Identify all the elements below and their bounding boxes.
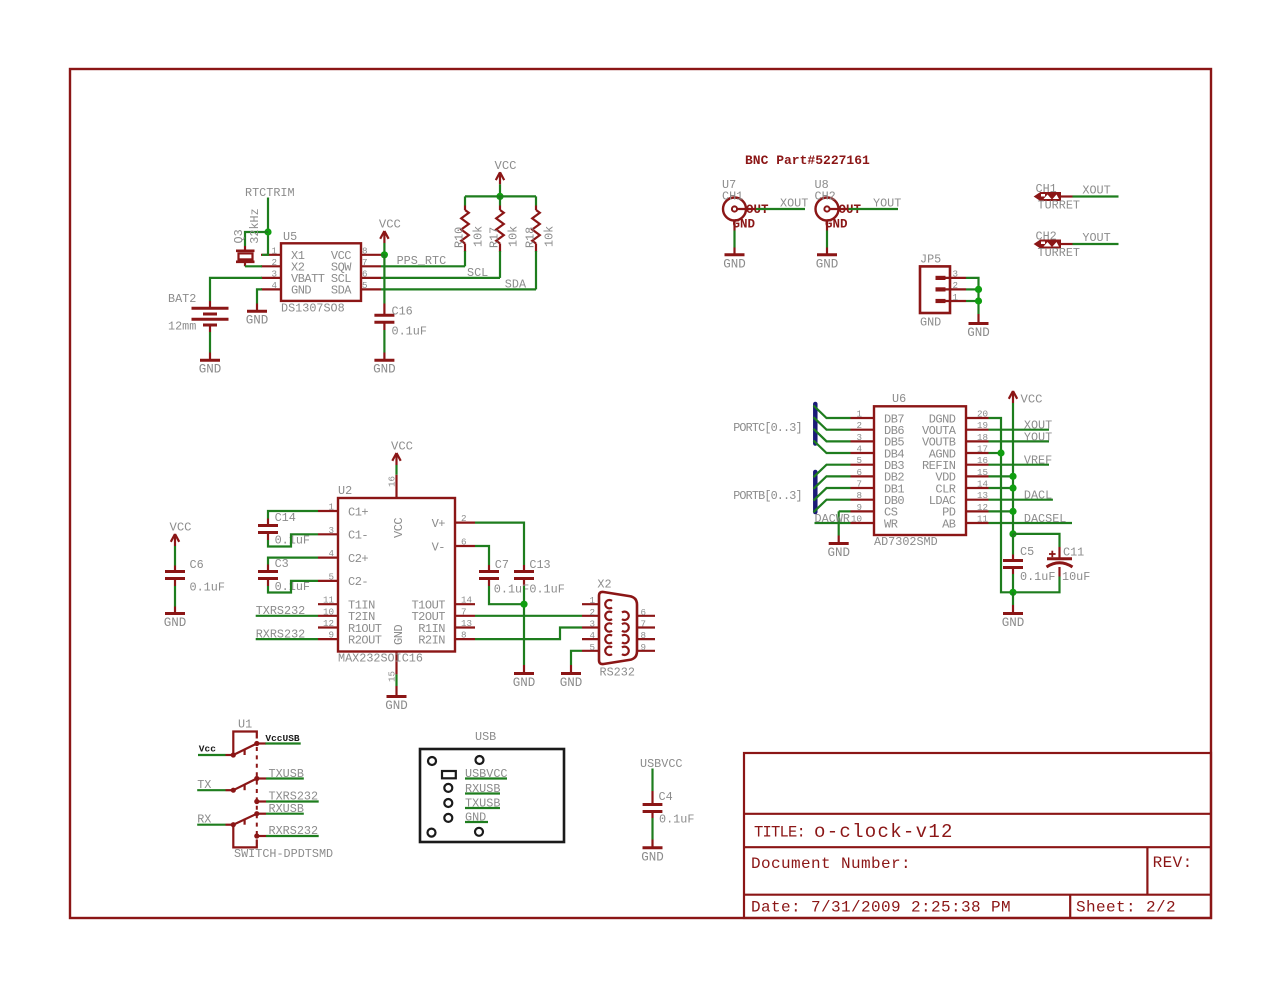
resistor R17 10k <box>488 196 521 252</box>
ground <box>816 248 839 272</box>
wire VCC to C6 <box>174 546 176 566</box>
capacitor C7 0.1uF <box>479 558 529 597</box>
svg-text:C5: C5 <box>1020 545 1034 559</box>
ground <box>1002 605 1025 630</box>
net USBVCC stub in USB box <box>465 767 507 781</box>
svg-text:VCC: VCC <box>1021 393 1043 407</box>
svg-text:SCL: SCL <box>467 266 488 280</box>
net GND stub in USB box <box>465 811 488 825</box>
wire C7 to junction <box>489 586 524 604</box>
svg-text:CH2: CH2 <box>815 190 836 204</box>
wire bottom rail to ground <box>1012 592 1014 605</box>
svg-text:1: 1 <box>328 502 334 513</box>
svg-text:USBVCC: USBVCC <box>640 757 682 771</box>
crystal Q3 32kHz <box>232 208 262 266</box>
ground <box>967 314 990 340</box>
wire junction down to C16 <box>383 255 385 304</box>
svg-text:GND: GND <box>560 676 583 690</box>
svg-text:2: 2 <box>271 257 277 268</box>
svg-text:10uF: 10uF <box>1062 570 1090 584</box>
svg-text:10k: 10k <box>507 226 521 247</box>
net TX wire <box>197 778 225 792</box>
net VccUSB wire <box>265 733 300 744</box>
svg-text:VCC: VCC <box>170 521 192 535</box>
wire junction to C5 <box>1012 534 1014 555</box>
svg-text:VCC: VCC <box>391 440 413 454</box>
svg-text:VCC: VCC <box>379 218 401 232</box>
svg-text:U6: U6 <box>892 392 906 406</box>
supply VCC for C6 <box>170 521 192 547</box>
ground <box>164 607 187 631</box>
net RXRS232 wire at U1 <box>266 824 319 838</box>
svg-text:PORTC[0..3]: PORTC[0..3] <box>733 421 802 435</box>
svg-text:TURRET: TURRET <box>1038 246 1080 260</box>
svg-text:XOUT: XOUT <box>780 197 808 211</box>
net TXRS232 wire at U1 <box>266 790 319 804</box>
junction VCC/C5/C11 top <box>1009 530 1016 537</box>
svg-text:8: 8 <box>641 630 647 641</box>
junction RTCTRIM/X1/crystal <box>264 228 271 235</box>
svg-text:YOUT: YOUT <box>873 197 901 211</box>
svg-text:Sheet: 2/2: Sheet: 2/2 <box>1076 899 1176 917</box>
title block <box>744 753 1211 918</box>
svg-text:GND: GND <box>385 699 408 713</box>
svg-text:5: 5 <box>328 571 334 582</box>
net XOUT wire at U7 <box>756 197 808 211</box>
svg-text:RXUSB: RXUSB <box>269 802 304 816</box>
net YOUT wire at U6 <box>989 430 1053 444</box>
junction rail <box>496 193 503 200</box>
svg-text:C2-: C2- <box>348 575 368 589</box>
svg-text:YOUT: YOUT <box>1024 430 1052 444</box>
wire crystal to X2 pin <box>245 265 262 267</box>
svg-text:0.1uF: 0.1uF <box>1020 570 1055 584</box>
ground <box>723 248 746 272</box>
svg-text:16: 16 <box>387 476 398 487</box>
junction C7/C13 <box>520 601 527 608</box>
svg-text:9: 9 <box>328 630 334 641</box>
svg-text:1: 1 <box>271 245 277 256</box>
svg-text:RXRS232: RXRS232 <box>256 627 306 641</box>
wire U8 GND down <box>826 231 828 248</box>
wire C11 to bottom rail <box>1013 577 1060 593</box>
net SCL wire <box>381 266 500 280</box>
BNC connector U7 CH1 <box>722 178 769 232</box>
svg-text:U2: U2 <box>338 484 352 498</box>
net RX wire <box>197 813 225 827</box>
svg-text:1: 1 <box>953 292 959 303</box>
supply VCC pull-up rail <box>495 159 517 185</box>
net RXRS232 wire at U2 <box>256 627 318 641</box>
resistor R18 10k <box>524 196 557 252</box>
wire R10 to PPS_RTC <box>464 251 466 266</box>
svg-text:0.1uF: 0.1uF <box>659 813 694 827</box>
svg-text:VCC: VCC <box>495 159 517 173</box>
svg-text:20: 20 <box>977 409 988 420</box>
wire U7 GND down <box>733 231 735 248</box>
svg-text:VccUSB: VccUSB <box>265 733 300 744</box>
svg-text:V+: V+ <box>432 517 446 531</box>
svg-text:GND: GND <box>825 218 848 232</box>
svg-text:SWITCH-DPDTSMD: SWITCH-DPDTSMD <box>234 847 333 861</box>
svg-text:C4: C4 <box>659 790 673 804</box>
net DACL wire <box>989 489 1053 503</box>
wire C16 to ground <box>383 330 385 353</box>
svg-text:GND: GND <box>827 546 850 560</box>
capacitor C16 0.1uF <box>374 304 427 339</box>
wire VCC to pin16 <box>395 465 397 475</box>
svg-text:11: 11 <box>977 514 989 525</box>
svg-text:1: 1 <box>856 409 862 420</box>
svg-text:VREF: VREF <box>1024 454 1052 468</box>
wire AGND to DGND line <box>989 452 1002 454</box>
wire C4 to ground <box>651 818 653 840</box>
junction JP5 pin1 <box>975 297 982 304</box>
wire CLR to VCC <box>989 487 1014 489</box>
svg-text:R2OUT: R2OUT <box>348 633 382 647</box>
wire USBVCC to C4 <box>651 769 653 792</box>
svg-text:9: 9 <box>641 642 647 653</box>
svg-text:4: 4 <box>589 630 595 641</box>
svg-text:3: 3 <box>856 432 862 443</box>
resistor R10 10k <box>453 196 486 252</box>
ground <box>513 665 536 690</box>
IC U2 MAX232SOIC16 <box>318 475 475 682</box>
wire R18 to SDA <box>535 251 537 289</box>
svg-text:GND: GND <box>164 616 187 630</box>
svg-text:11: 11 <box>323 595 335 606</box>
wire U5 GND pin to ground <box>257 289 262 303</box>
ground <box>385 686 408 713</box>
net TXUSB wire <box>266 767 304 781</box>
svg-text:2: 2 <box>461 513 467 524</box>
pin header JP5 <box>920 253 966 330</box>
svg-text:12: 12 <box>977 502 988 513</box>
svg-text:U1: U1 <box>238 718 252 732</box>
svg-text:GND: GND <box>392 625 406 645</box>
wire C13 to ground <box>523 586 525 665</box>
svg-text:17: 17 <box>977 444 988 455</box>
turret CH2 <box>1035 230 1080 261</box>
supply VCC for U6 <box>1009 391 1017 403</box>
wire VCC vertical <box>1012 403 1014 534</box>
net VREF wire <box>989 454 1053 468</box>
svg-text:13: 13 <box>977 490 988 501</box>
svg-text:0.1uF: 0.1uF <box>190 581 225 595</box>
svg-text:SDA: SDA <box>505 278 527 292</box>
wire pin8 junction <box>381 254 384 256</box>
svg-text:C13: C13 <box>529 558 550 572</box>
svg-text:GND: GND <box>723 257 746 271</box>
svg-text:WR: WR <box>884 517 898 531</box>
svg-text:C16: C16 <box>392 305 413 319</box>
svg-text:7: 7 <box>362 257 368 268</box>
svg-text:14: 14 <box>461 595 473 606</box>
svg-text:XOUT: XOUT <box>1082 184 1110 198</box>
wire C14 to C1- <box>268 534 318 546</box>
junction VCC/pin8/C16 <box>381 251 388 258</box>
svg-text:15: 15 <box>977 467 988 478</box>
svg-text:RXRS232: RXRS232 <box>269 824 319 838</box>
switch U1 SWITCH-DPDTSMD <box>226 718 334 861</box>
ground <box>827 536 850 561</box>
wire R2IN to X2 pin3 <box>475 628 582 640</box>
wire bus to DB3 <box>814 465 851 478</box>
wire junction to crystal <box>245 232 268 246</box>
net Vcc wire <box>198 744 226 756</box>
svg-text:DACWR: DACWR <box>815 512 850 526</box>
net TXRS232 wire at U2 <box>256 604 318 618</box>
net TXRS232 wire U2 to X2 pin2 <box>475 615 582 617</box>
svg-text:GND: GND <box>967 326 990 340</box>
svg-text:TXUSB: TXUSB <box>465 797 500 811</box>
ground <box>641 840 664 865</box>
svg-text:13: 13 <box>461 618 472 629</box>
svg-text:TITLE:: TITLE: <box>754 824 805 842</box>
junction JP5 pin2 <box>975 286 982 293</box>
supply VCC for U5 <box>379 218 401 244</box>
IC U6 AD7302SMD <box>851 392 989 549</box>
turret CH1 <box>1035 182 1080 213</box>
svg-text:AB: AB <box>942 517 956 531</box>
svg-text:RS232: RS232 <box>600 666 635 680</box>
ground <box>560 665 583 690</box>
bus PORTB[0..3] <box>733 472 815 512</box>
svg-text:REV:: REV: <box>1153 854 1193 872</box>
svg-text:C1+: C1+ <box>348 505 368 519</box>
svg-text:C14: C14 <box>275 511 296 525</box>
junction VDD <box>1009 473 1016 480</box>
net RXUSB stub in USB box <box>465 782 500 796</box>
wire VCC to rail <box>499 184 501 196</box>
wire battery to ground <box>209 332 211 353</box>
svg-text:7: 7 <box>856 479 862 490</box>
capacitor C6 0.1uF <box>165 558 225 595</box>
wire C6 to ground <box>174 586 176 607</box>
svg-text:10k: 10k <box>472 226 486 247</box>
svg-text:GND: GND <box>920 316 941 330</box>
svg-text:GND: GND <box>246 314 269 328</box>
svg-text:DACSEL: DACSEL <box>1024 512 1066 526</box>
svg-text:USBVCC: USBVCC <box>465 767 507 781</box>
svg-text:TXUSB: TXUSB <box>269 767 304 781</box>
svg-text:DS1307SO8: DS1307SO8 <box>281 302 345 316</box>
junction bottom rail <box>1009 589 1016 596</box>
svg-text:7: 7 <box>641 619 647 630</box>
svg-text:0.1uF: 0.1uF <box>529 583 564 597</box>
svg-text:R18: R18 <box>524 227 538 248</box>
svg-text:BNC Part#5227161: BNC Part#5227161 <box>745 153 870 168</box>
wire V+ to C13 <box>475 523 524 565</box>
wire CS to ground <box>839 511 851 535</box>
svg-text:10: 10 <box>323 606 334 617</box>
svg-text:19: 19 <box>977 420 988 431</box>
ground <box>373 353 396 377</box>
svg-text:2: 2 <box>953 280 959 291</box>
svg-text:YOUT: YOUT <box>1082 231 1110 245</box>
wire RTCTRIM vertical <box>262 198 268 255</box>
IC U5 DS1307SO8 <box>261 230 381 316</box>
svg-text:8: 8 <box>362 245 368 256</box>
wire JP5 pin2 <box>966 288 979 290</box>
net DACWR wire <box>815 512 851 526</box>
svg-text:MAX232SOIC16: MAX232SOIC16 <box>338 652 423 666</box>
wire JP5 pin3 <box>966 278 979 314</box>
svg-text:6: 6 <box>362 268 368 279</box>
svg-text:18: 18 <box>977 432 988 443</box>
svg-text:U5: U5 <box>283 230 297 244</box>
svg-text:6: 6 <box>641 607 647 618</box>
wire C2+ to C3 <box>268 558 318 565</box>
wire R17 to SCL <box>499 251 501 278</box>
svg-text:CH1: CH1 <box>722 190 743 204</box>
wire DGND to bottom rail <box>989 418 1014 592</box>
svg-text:Date: 7/31/2009 2:25:38 PM: Date: 7/31/2009 2:25:38 PM <box>751 899 1011 917</box>
wire bus to DB7 <box>814 406 851 419</box>
net XOUT wire at turret CH1 <box>1073 184 1119 198</box>
wire bus to DB6 <box>814 417 851 430</box>
svg-text:GND: GND <box>291 284 311 298</box>
net TXUSB stub in USB box <box>465 797 500 811</box>
svg-text:TXRS232: TXRS232 <box>256 604 306 618</box>
polarized capacitor C11 10uF <box>1047 546 1091 585</box>
svg-text:o-clock-v12: o-clock-v12 <box>814 821 954 843</box>
wire C5 to bottom rail <box>1012 574 1014 592</box>
wire bus to DB1 <box>814 488 851 501</box>
net YOUT wire at U8 <box>849 197 902 211</box>
net SDA wire <box>381 278 536 292</box>
wire VBATT to battery <box>210 278 262 301</box>
svg-text:GND: GND <box>465 811 486 825</box>
svg-text:TURRET: TURRET <box>1038 199 1080 213</box>
svg-text:RXUSB: RXUSB <box>465 782 500 796</box>
svg-text:CH1: CH1 <box>1036 182 1057 196</box>
svg-text:4: 4 <box>271 280 277 291</box>
svg-text:5: 5 <box>362 280 368 291</box>
svg-text:VCC: VCC <box>392 518 406 538</box>
junction PD <box>1009 508 1016 515</box>
svg-text:6: 6 <box>856 467 862 478</box>
net XOUT wire at U6 <box>989 419 1053 433</box>
svg-text:BAT2: BAT2 <box>168 292 196 306</box>
wire pull-up rail <box>465 195 536 197</box>
wire VDD to VCC <box>989 475 1014 477</box>
svg-text:12mm: 12mm <box>168 320 196 334</box>
svg-text:8: 8 <box>856 490 862 501</box>
svg-text:1: 1 <box>589 595 595 606</box>
connector USB header <box>420 730 564 842</box>
supply VCC for U2 <box>391 440 413 466</box>
capacitor C13 0.1uF <box>514 558 565 597</box>
svg-text:3: 3 <box>589 619 595 630</box>
svg-text:10: 10 <box>851 514 862 525</box>
wire bus to DB5 <box>814 429 851 442</box>
wire bus to DB4 <box>814 441 851 454</box>
junction AGND <box>997 449 1004 456</box>
svg-text:X2: X2 <box>597 578 611 592</box>
wire V- to C7 <box>475 546 489 565</box>
svg-text:14: 14 <box>977 479 989 490</box>
svg-text:3: 3 <box>953 269 959 280</box>
wire VCC to pin8 <box>383 243 385 255</box>
svg-text:CH2: CH2 <box>1036 230 1057 244</box>
svg-text:GND: GND <box>373 363 396 377</box>
svg-text:GND: GND <box>733 218 756 232</box>
svg-text:3: 3 <box>271 268 277 279</box>
svg-text:TX: TX <box>197 778 211 792</box>
svg-text:4: 4 <box>328 548 334 559</box>
wire bus to DB0 <box>814 500 851 513</box>
svg-text:12: 12 <box>323 618 334 629</box>
wire junction to C11 top <box>1013 534 1060 547</box>
svg-text:Document Number:: Document Number: <box>751 855 911 873</box>
svg-text:SDA: SDA <box>331 284 352 298</box>
svg-text:2: 2 <box>856 420 862 431</box>
ground <box>199 353 222 377</box>
svg-text:PPS_RTC: PPS_RTC <box>397 254 447 268</box>
svg-text:RX: RX <box>197 813 211 827</box>
svg-text:GND: GND <box>816 257 839 271</box>
svg-text:GND: GND <box>1002 616 1025 630</box>
svg-text:16: 16 <box>977 455 988 466</box>
battery BAT2 12mm <box>168 292 229 334</box>
svg-text:C7: C7 <box>495 558 509 572</box>
svg-text:DACL: DACL <box>1024 489 1052 503</box>
svg-text:AD7302SMD: AD7302SMD <box>874 535 938 549</box>
svg-text:USB: USB <box>475 730 496 744</box>
svg-text:GND: GND <box>513 676 536 690</box>
wire X2 pin5 to ground <box>571 651 582 665</box>
net DACSEL wire <box>989 512 1073 526</box>
net PPS_RTC wire <box>381 254 465 268</box>
svg-text:GND: GND <box>641 850 664 864</box>
wire bus to DB2 <box>814 476 851 489</box>
svg-text:7: 7 <box>461 606 467 617</box>
net RXUSB wire <box>266 802 304 816</box>
svg-text:0.1uF: 0.1uF <box>392 325 427 339</box>
svg-text:Q3: Q3 <box>232 229 246 243</box>
svg-text:4: 4 <box>856 444 862 455</box>
junction CLR <box>1009 484 1016 491</box>
BNC connector U8 CH2 <box>815 178 862 232</box>
svg-text:PORTB[0..3]: PORTB[0..3] <box>733 489 802 503</box>
capacitor C14 0.1uF <box>258 511 310 548</box>
svg-text:V-: V- <box>432 540 445 554</box>
svg-text:C6: C6 <box>190 558 204 572</box>
wire PD to VCC <box>989 510 1014 512</box>
connector X2 RS232 DB9 <box>582 578 655 680</box>
svg-text:C1-: C1- <box>348 529 368 543</box>
bus PORTC[0..3] <box>733 404 815 444</box>
svg-text:5: 5 <box>589 642 595 653</box>
svg-text:10k: 10k <box>543 226 557 247</box>
svg-text:R2IN: R2IN <box>418 633 445 647</box>
net YOUT wire at turret CH2 <box>1073 231 1119 245</box>
svg-text:JP5: JP5 <box>920 253 941 267</box>
wire C1+ to C14 <box>268 511 318 519</box>
ground <box>246 304 269 328</box>
svg-text:2: 2 <box>589 607 595 618</box>
svg-text:C11: C11 <box>1063 546 1084 560</box>
svg-text:9: 9 <box>856 502 862 513</box>
capacitor C5 0.1uF <box>1003 545 1055 584</box>
wire pin15 to ground <box>395 674 397 686</box>
svg-text:R10: R10 <box>453 227 467 248</box>
svg-text:5: 5 <box>856 455 862 466</box>
capacitor C4 0.1uF <box>643 790 695 827</box>
svg-text:R17: R17 <box>488 227 502 248</box>
svg-text:RTCTRIM: RTCTRIM <box>245 186 295 200</box>
